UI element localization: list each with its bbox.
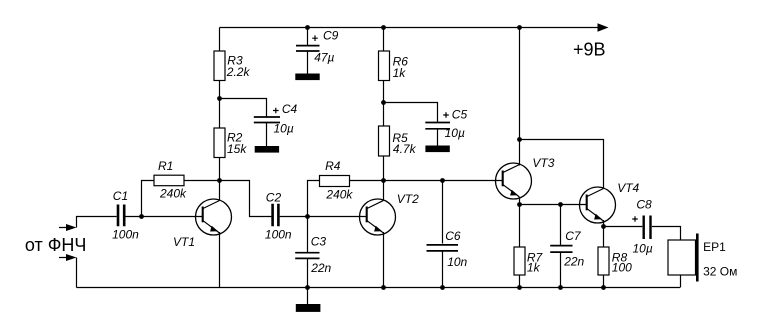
svg-text:32 Ом: 32 Ом bbox=[703, 264, 737, 278]
svg-text:R1: R1 bbox=[158, 159, 173, 173]
svg-text:от ФНЧ: от ФНЧ bbox=[25, 235, 87, 255]
svg-text:1k: 1k bbox=[527, 261, 541, 275]
svg-text:100n: 100n bbox=[265, 227, 292, 241]
svg-text:10µ: 10µ bbox=[445, 126, 465, 140]
svg-text:R4: R4 bbox=[325, 159, 341, 173]
svg-text:2.2k: 2.2k bbox=[226, 65, 251, 79]
svg-text:10n: 10n bbox=[447, 255, 467, 269]
svg-text:240k: 240k bbox=[159, 186, 187, 200]
svg-text:+9В: +9В bbox=[573, 39, 606, 59]
svg-text:4.7k: 4.7k bbox=[393, 142, 417, 156]
svg-text:C1: C1 bbox=[113, 189, 128, 203]
svg-text:EP1: EP1 bbox=[703, 240, 726, 254]
svg-text:1k: 1k bbox=[393, 66, 407, 80]
svg-text:100n: 100n bbox=[112, 228, 139, 242]
svg-text:C9: C9 bbox=[323, 29, 339, 43]
svg-text:VT3: VT3 bbox=[532, 156, 554, 170]
svg-text:22n: 22n bbox=[310, 261, 331, 275]
svg-text:10µ: 10µ bbox=[633, 242, 653, 256]
svg-text:C4: C4 bbox=[282, 102, 298, 116]
svg-text:VT2: VT2 bbox=[397, 192, 419, 206]
svg-text:240k: 240k bbox=[325, 187, 353, 201]
svg-text:C2: C2 bbox=[266, 191, 282, 205]
svg-text:C5: C5 bbox=[452, 107, 468, 121]
svg-text:10µ: 10µ bbox=[274, 122, 294, 136]
svg-text:47µ: 47µ bbox=[314, 51, 334, 65]
svg-text:VT4: VT4 bbox=[617, 181, 639, 195]
svg-text:C6: C6 bbox=[445, 229, 461, 243]
svg-text:15k: 15k bbox=[227, 142, 247, 156]
svg-text:22n: 22n bbox=[563, 254, 584, 268]
svg-text:VT1: VT1 bbox=[173, 235, 195, 249]
svg-text:C8: C8 bbox=[636, 198, 652, 212]
svg-text:100: 100 bbox=[612, 261, 632, 275]
svg-text:C7: C7 bbox=[565, 229, 582, 243]
svg-text:C3: C3 bbox=[311, 235, 327, 249]
